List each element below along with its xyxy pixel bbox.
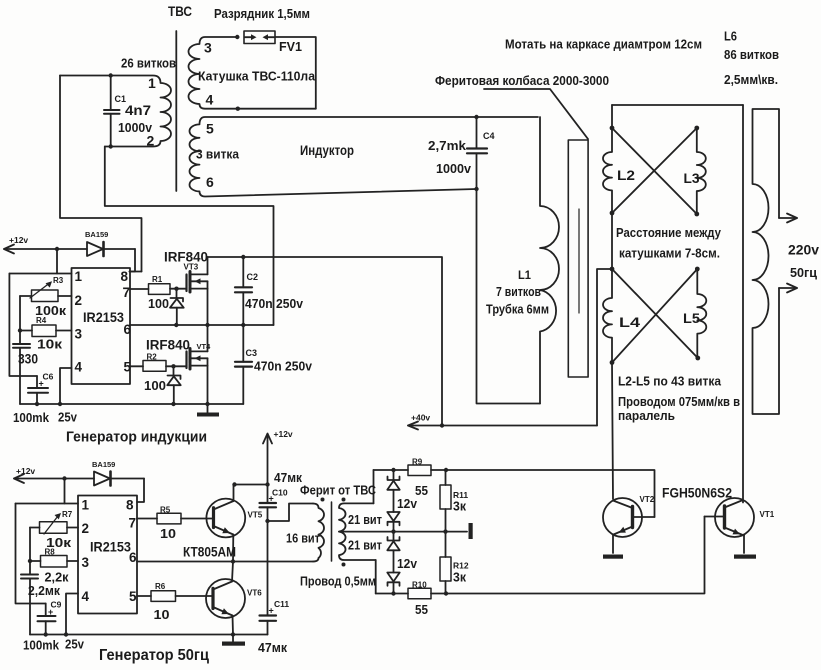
inductor L2 [603, 128, 612, 213]
node: winding4 bottom [236, 107, 240, 111]
svg-text:IR2153: IR2153 [90, 539, 131, 555]
node: D1 top on rail [391, 468, 395, 472]
wire: gate lead VT3 [170, 288, 186, 290]
transistor Q5 VT5 KT805AM [206, 499, 245, 538]
wire: diode to pin 8 (50Hz) [137, 479, 144, 503]
svg-text:C3: C3 [246, 348, 258, 358]
wire: rail down to pin 1 (50Hz) [64, 479, 66, 504]
svg-text:7: 7 [123, 285, 131, 300]
svg-text:L1: L1 [518, 268, 531, 282]
svg-text:50гц: 50гц [790, 265, 817, 280]
svg-text:25v: 25v [65, 637, 85, 652]
svg-text:R10: R10 [412, 581, 427, 590]
svg-text:10: 10 [160, 526, 176, 541]
svg-text:Генератор 50гц: Генератор 50гц [99, 647, 209, 664]
diode BA159 (top generator) [87, 242, 135, 256]
zener diode D2 [387, 512, 399, 532]
node: top rail joins +40v [440, 423, 444, 427]
svg-text:VT4: VT4 [197, 342, 212, 351]
resistor R2 100 [143, 361, 166, 372]
wire: gate lead VT4 [166, 365, 186, 367]
node: pin4 wire on ground rail (50Hz) [64, 632, 68, 636]
zener diode D1 12v [387, 470, 399, 512]
resistor R10 55 [408, 588, 431, 599]
wire: FV1 loop right side [275, 37, 316, 109]
resistor R1 100 [149, 284, 171, 295]
wire: secondary top up to R9 rail [373, 470, 375, 503]
220v output arrow bottom [779, 284, 797, 293]
svg-text:+: + [269, 606, 274, 616]
zener diode D4 [387, 573, 399, 594]
wire: cross L4 top to L5 bottom [612, 269, 698, 358]
transformer T2 secondary 21+21 вит [339, 503, 376, 560]
transistor Q6 VT6 KT805AM [206, 579, 245, 618]
svg-text:R1: R1 [152, 275, 163, 284]
node: C6 on ground rail [35, 402, 39, 406]
node: zener on mid rail [174, 323, 178, 327]
wire: cross L2 top to L3 bottom [612, 128, 697, 214]
wire: secondary bottom down to R10 rail [375, 560, 377, 594]
wire: cross L5 top to L4 bottom [612, 269, 697, 363]
svg-text:470n 250v: 470n 250v [254, 359, 313, 374]
wire: R7 left down to R8 left [29, 528, 31, 562]
svg-text:8: 8 [121, 269, 129, 284]
transformer T2 primary 16 вит [313, 504, 324, 562]
svg-text:Феритовая колбаса 2000-3000: Феритовая колбаса 2000-3000 [435, 73, 609, 88]
wire: pin 6 output rail (50Hz) [137, 561, 313, 563]
svg-text:12v: 12v [397, 557, 417, 571]
wire: left chain top [611, 105, 613, 128]
node: L3 top [694, 126, 699, 131]
svg-text:C2: C2 [247, 272, 259, 282]
capacitor 330 [13, 331, 30, 405]
wire: pin 7 to R5 [137, 518, 157, 520]
svg-text:4: 4 [206, 92, 214, 108]
svg-text:Катушка ТВС-110ла: Катушка ТВС-110ла [198, 69, 316, 84]
svg-text:3: 3 [204, 40, 212, 56]
node: center tap / zener column [391, 529, 395, 533]
inductor L1 7 витков [540, 117, 559, 404]
svg-text:+12v: +12v [9, 235, 28, 245]
node: C2 top on rail [241, 255, 245, 259]
wire: pin 5 to R6 [137, 595, 151, 597]
+12v rail of induction generator [4, 248, 87, 250]
svg-text:паралель: паралель [618, 408, 675, 423]
capacitor C10 47мк [260, 503, 277, 616]
svg-text:R7: R7 [62, 510, 73, 519]
svg-text:4: 4 [75, 360, 83, 375]
svg-text:100: 100 [148, 296, 169, 311]
node: R1 / gate VT3 / zener [174, 287, 178, 291]
svg-text:катушками 7-8см.: катушками 7-8см. [619, 246, 720, 261]
svg-text:25v: 25v [58, 410, 78, 425]
svg-text:VT5: VT5 [248, 511, 263, 520]
winding 3-4 of TBC (Катушка ТВС-110ла) [189, 37, 316, 109]
svg-text:Разрядник 1,5мм: Разрядник 1,5мм [214, 6, 310, 21]
svg-text:R8: R8 [45, 548, 56, 557]
svg-text:1000v: 1000v [436, 161, 472, 176]
svg-text:21 вит: 21 вит [348, 539, 382, 553]
svg-text:10: 10 [154, 607, 170, 622]
svg-text:VT1: VT1 [760, 510, 775, 519]
svg-text:3: 3 [75, 327, 83, 342]
node: inductor top / C4 top [474, 115, 478, 119]
+12v arrow left (50Hz generator) [14, 474, 24, 483]
node: C2/C3 midpoint [241, 323, 245, 327]
svg-text:220v: 220v [788, 243, 819, 258]
svg-text:L3: L3 [684, 170, 700, 186]
+12v rail of 50Hz generator [14, 478, 94, 480]
svg-text:R11: R11 [453, 490, 468, 500]
svg-text:7: 7 [129, 516, 137, 531]
node: C10 bottom / primary top [265, 519, 269, 523]
node: VT4 source on ground rail [205, 402, 209, 406]
svg-text:47мк: 47мк [258, 640, 287, 655]
wire: mid rail pin 6 [130, 324, 274, 326]
node: +12 line / VT5 collector [265, 482, 269, 486]
node: secondary phasing dot bottom [342, 563, 346, 567]
wire: left line pin1 down to C6 [9, 274, 37, 377]
ground symbol (induction generator) [197, 404, 219, 417]
wire: L2 bottom down to L4 top [611, 213, 613, 269]
node: C9 on ground rail [44, 632, 48, 636]
wire: VT5 collector to +12 node [234, 485, 268, 502]
svg-text:C11: C11 [274, 599, 289, 609]
node: R2 / gate VT4 / zener [171, 364, 175, 368]
svg-text:21 вит: 21 вит [348, 513, 382, 527]
svg-text:3 витка: 3 витка [196, 147, 240, 162]
wire: R6 to VT6 base [176, 595, 214, 597]
ground symbol center tap (bar) [469, 523, 473, 539]
svg-text:2: 2 [82, 521, 90, 536]
wire: VT6 emitter down to ground rail [232, 616, 235, 635]
wire: +40v up to L4 [597, 269, 612, 426]
ferrite rod (Феритовая колбаса) [568, 140, 588, 377]
node: R7/R8 left junction [28, 559, 32, 563]
svg-text:100mk: 100mk [13, 410, 50, 425]
svg-text:L2-L5 по 43 витка: L2-L5 по 43 витка [618, 374, 722, 389]
wire: R9 rail [374, 469, 409, 471]
resistor R5 10 [157, 513, 181, 524]
node: secondary phasing dot top [342, 498, 346, 502]
node: C1 top / winding1 [109, 73, 113, 77]
node: D4 bottom on rail [391, 591, 395, 595]
svg-text:+12v: +12v [274, 429, 293, 439]
wire: output coil box top edge [612, 104, 743, 106]
spark gap FV1 arrows [245, 34, 274, 40]
svg-text:5: 5 [206, 121, 214, 137]
+12v arrow left [4, 245, 14, 254]
capacitor C6 100mk 25v electrolytic [28, 376, 48, 404]
ferrite rod inner line [578, 209, 580, 313]
svg-text:+12v: +12v [16, 466, 35, 476]
svg-text:L5: L5 [683, 310, 700, 326]
wire: R3 left down to R4 left [19, 296, 21, 331]
svg-text:VT2: VT2 [640, 495, 655, 504]
resistor R8 2,2k [30, 556, 78, 568]
svg-text:BA159: BA159 [85, 230, 108, 239]
svg-text:L2: L2 [617, 167, 635, 183]
inductor L4 [603, 269, 612, 363]
wire: step to transformer primary top [268, 504, 314, 522]
node: VT6 emitter on ground rail [231, 632, 235, 636]
svg-text:1: 1 [148, 75, 156, 91]
transistor Q VT4 IRF840 [187, 325, 208, 404]
node: R10 / R12 junction [444, 591, 448, 595]
wire: box right edge down to VT1 collector [742, 105, 744, 503]
ground symbol VT6 [222, 635, 245, 646]
wire: pin 5 to R2 [130, 365, 143, 367]
inductor L6 86 витков output winding [753, 109, 780, 414]
winding 5-6 of TBC (3 витка, Индуктор) [190, 117, 539, 197]
wire: center tap to ground [339, 531, 467, 533]
svg-text:IR2153: IR2153 [83, 309, 124, 325]
svg-text:ТВС: ТВС [168, 3, 192, 19]
svg-text:R9: R9 [412, 458, 423, 467]
svg-text:3к: 3к [453, 571, 467, 585]
svg-text:Мотать на каркасе диамтром 12с: Мотать на каркасе диамтром 12см [505, 38, 702, 52]
wire: VT5 emitter down to output rail [232, 535, 234, 562]
svg-text:1: 1 [75, 269, 83, 284]
spark gap FV1 box [244, 31, 275, 44]
resistor R9 55 [408, 465, 431, 476]
svg-text:6: 6 [129, 550, 137, 565]
svg-text:4n7: 4n7 [125, 103, 151, 118]
svg-text:16 вит: 16 вит [286, 532, 320, 546]
svg-text:R12: R12 [453, 561, 469, 571]
ground rail of induction generator [20, 403, 243, 405]
diode BA159 (50Hz generator) [94, 472, 144, 486]
node: +12v rail to pin1 [55, 247, 59, 251]
capacitor C4 2,7mk 1000v [467, 117, 487, 153]
svg-text:86 витков: 86 витков [724, 48, 779, 62]
+40v arrow [408, 422, 418, 430]
svg-text:2,7mk: 2,7mk [428, 138, 467, 153]
svg-text:FV1: FV1 [279, 39, 302, 54]
capacitor 2,2мк [21, 561, 38, 635]
node: pin4 wire on ground rail [58, 402, 62, 406]
node: VT5 collector corner [232, 482, 236, 486]
+12v arrow up (50Hz supply) [263, 434, 272, 504]
wire: VT2 base up and left to R9 rail [446, 470, 655, 517]
svg-text:L6: L6 [724, 30, 737, 44]
wire: cross L3 top to L2 bottom [612, 128, 697, 213]
resistor R11 3k [440, 470, 451, 532]
wire: rail down to pin 1 [56, 249, 58, 274]
svg-text:Индуктор: Индуктор [300, 142, 354, 158]
svg-text:10к: 10к [37, 337, 63, 352]
+40v rail [408, 425, 597, 427]
wire: winding1 top lead down left side to pin8 loop [60, 76, 142, 272]
svg-text:C4: C4 [483, 131, 495, 141]
node: L5 top [695, 267, 700, 272]
wire: pin 4 down to ground rail [60, 368, 72, 404]
svg-text:6: 6 [124, 322, 132, 337]
wire: VT6 collector up to pin6 rail [232, 562, 233, 582]
svg-text:КТ805АМ: КТ805АМ [183, 544, 236, 560]
transistor Q2 VT2 FGH50N6S2 [603, 498, 655, 553]
capacitor C1 4n7 1000v [104, 76, 120, 147]
svg-text:3: 3 [82, 555, 90, 570]
svg-text:3к: 3к [453, 500, 467, 514]
resistor R4 10k [20, 325, 72, 337]
svg-text:L4: L4 [619, 314, 640, 330]
svg-text:330: 330 [18, 351, 38, 367]
capacitor C9 100mk 25v electrolytic [38, 604, 56, 635]
svg-text:7 витков: 7 витков [496, 285, 541, 299]
svg-text:Расстояние между: Расстояние между [616, 225, 722, 240]
zener diode at VT3 gate [170, 289, 184, 325]
svg-text:C10: C10 [272, 488, 288, 498]
capacitor C2 470n 250v [235, 257, 252, 325]
wire: pin 4 down to ground rail (50Hz) [66, 594, 78, 635]
svg-text:VT3: VT3 [184, 263, 199, 272]
capacitor C11 47мк [260, 616, 277, 635]
svg-text:R6: R6 [155, 582, 166, 591]
wire: R9 to VT2 base line [431, 469, 446, 471]
winding 1-2 of TBC (26 витков) [60, 76, 171, 147]
svg-text:R4: R4 [36, 316, 47, 325]
node: inductor bottom lead joins C4 line [474, 187, 478, 191]
transistor Q1 VT1 FGH50N6S2 [705, 498, 755, 553]
node: primary phasing dot [321, 498, 325, 502]
transistor Q VT3 IRF840 [187, 257, 208, 325]
resistor R12 3k [440, 532, 451, 594]
wire: winding2 node down and right to half-bridge midpoint [105, 147, 274, 326]
capacitor C3 470n 250v [235, 325, 252, 404]
svg-text:6: 6 [206, 174, 214, 190]
wire: pin 8 stub [130, 271, 142, 273]
node: VT3 source on mid rail [205, 323, 209, 327]
svg-text:VT6: VT6 [247, 589, 262, 598]
svg-text:8: 8 [126, 498, 134, 513]
node: R9 / R11 junction [444, 468, 448, 472]
svg-text:Проводом 075мм/кв в: Проводом 075мм/кв в [618, 394, 740, 409]
node: VT5 emitter / VT6 collector on pin6 rail [231, 559, 235, 563]
op-amp U2 IR2153 (50Hz generator) [78, 496, 137, 614]
op-amp U1 IR2153 (induction generator) [72, 268, 131, 384]
svg-text:R3: R3 [53, 276, 64, 285]
220v output arrow top [779, 214, 797, 223]
svg-text:100mk: 100mk [23, 638, 60, 653]
svg-text:2,2мк: 2,2мк [28, 583, 60, 598]
node: R3/R4 left junction [18, 328, 22, 332]
svg-text:BA159: BA159 [92, 460, 115, 469]
svg-text:+40v: +40v [411, 413, 430, 423]
label leader line for Феритовая колбаса [484, 89, 588, 139]
svg-text:2,5мм\кв.: 2,5мм\кв. [724, 73, 778, 87]
ground symbol VT1 [734, 555, 756, 559]
node: L3 bottom [694, 212, 699, 217]
node: L2 top [610, 126, 615, 131]
wire: R5 to VT5 base [181, 518, 214, 520]
node: zener2 on ground rail [171, 402, 175, 406]
svg-text:55: 55 [415, 483, 428, 498]
svg-text:1: 1 [82, 498, 90, 513]
wire: diode to pin 8 [130, 249, 136, 272]
inductor L3 [697, 128, 706, 214]
svg-text:R2: R2 [147, 353, 158, 362]
svg-text:2: 2 [75, 293, 83, 308]
wire: pin 7 to R1 [130, 288, 149, 290]
node: L4 top [610, 267, 615, 272]
potentiometer R3 100k [20, 281, 72, 301]
resistor R6 10 [151, 591, 176, 602]
svg-text:R5: R5 [160, 506, 171, 515]
svg-text:55: 55 [415, 602, 428, 617]
ground rail of 50Hz generator [30, 634, 268, 636]
wire: left line pin1 down to C9 (50Hz) [16, 504, 46, 604]
svg-text:Трубка 6мм: Трубка 6мм [486, 303, 549, 317]
svg-text:FGH50N6S2: FGH50N6S2 [662, 485, 732, 501]
wire: R10 rail [376, 593, 408, 595]
svg-text:5: 5 [129, 589, 137, 604]
ground symbol VT2 [603, 555, 623, 559]
node: rail to pin1 (50Hz) [62, 476, 66, 480]
inductor L5 [697, 269, 706, 358]
wire: L4 bottom down to VT2 collector [612, 363, 613, 500]
svg-text:47мк: 47мк [274, 470, 302, 485]
wire: pin 1 [9, 273, 71, 275]
svg-text:Провод 0,5мм: Провод 0,5мм [300, 574, 376, 589]
transformer TBC core [175, 31, 177, 191]
node: center tap / R11 R12 [443, 529, 447, 533]
transformer T2 core [331, 502, 333, 561]
svg-text:4: 4 [82, 589, 90, 604]
node: L4 bottom [610, 360, 615, 365]
zener diode at VT4 gate [167, 366, 180, 404]
svg-text:5: 5 [124, 360, 132, 375]
node: L5 bottom [695, 356, 700, 361]
wire: +supply top rail to +40v line [208, 257, 443, 426]
svg-text:100: 100 [144, 378, 166, 393]
wire: VT1 base down to R10 rail [446, 517, 705, 594]
svg-text:470n 250v: 470n 250v [245, 296, 304, 311]
potentiometer R7 10k [30, 513, 78, 534]
node: winding3 top [235, 35, 239, 39]
svg-text:C6: C6 [43, 372, 54, 382]
wire: R10 to VT1 base line [431, 593, 446, 595]
svg-text:1000v: 1000v [118, 120, 153, 135]
node: L2 bottom [610, 211, 615, 216]
svg-text:Генератор индукции: Генератор индукции [66, 429, 207, 446]
wire: pin 1 (50Hz) [16, 503, 79, 505]
svg-text:+: + [48, 607, 53, 617]
wire: C4 down to L1 bottom loop [477, 153, 541, 403]
svg-text:Ферит от ТВС: Ферит от ТВС [300, 483, 377, 498]
svg-text:26 витков: 26 витков [121, 57, 176, 71]
svg-text:IRF840: IRF840 [146, 338, 190, 353]
svg-text:+: + [269, 494, 274, 504]
node: C1 bottom / winding2 [109, 144, 113, 148]
svg-text:12v: 12v [397, 497, 417, 511]
zener diode D3 12v [387, 532, 399, 573]
svg-text:+: + [39, 379, 44, 389]
